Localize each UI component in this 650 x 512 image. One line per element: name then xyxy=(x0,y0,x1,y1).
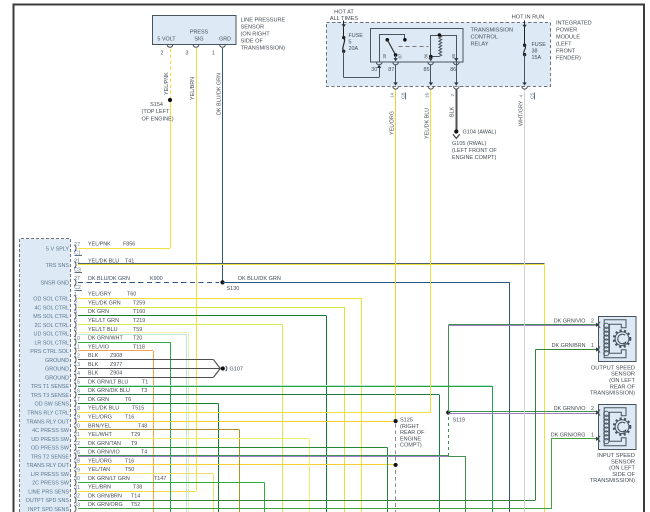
svg-text:DK GRN/WHT: DK GRN/WHT xyxy=(88,336,123,342)
svg-text:T38: T38 xyxy=(133,485,142,491)
svg-text:T1: T1 xyxy=(142,379,148,385)
svg-text:T29: T29 xyxy=(131,432,140,438)
svg-text:T50: T50 xyxy=(125,467,134,473)
svg-text:86: 86 xyxy=(423,53,428,58)
svg-text:33: 33 xyxy=(74,502,80,508)
svg-text:ALL TIMES: ALL TIMES xyxy=(330,16,359,22)
relay coil between pins 85 and 86 xyxy=(430,35,432,57)
wire DK GRN/WHT T20 LR solenoid: TCM pin10 right, down off-page xyxy=(78,342,170,344)
svg-text:DK BLU/DK GRN: DK BLU/DK GRN xyxy=(217,73,223,115)
svg-text:(ON RIGHT: (ON RIGHT xyxy=(241,32,271,38)
wire YEL/DK BLU 16: relay pin 85 exit at IPM edge xyxy=(429,82,433,85)
svg-text:FUSE: FUSE xyxy=(349,33,364,39)
svg-text:TRANSMISSION): TRANSMISSION) xyxy=(590,478,635,484)
svg-text:RELAY: RELAY xyxy=(471,42,489,48)
relay pin 86 riser xyxy=(456,35,458,62)
svg-text:T48: T48 xyxy=(138,423,147,429)
svg-text:DK GRN/ORG: DK GRN/ORG xyxy=(88,502,123,508)
speed sensor connector bumps and arrows xyxy=(599,322,601,328)
svg-text:(RIGHT: (RIGHT xyxy=(400,424,420,430)
wire YEL/ORG 14 C8: relay pin 87 exit at IPM edge xyxy=(393,82,397,85)
svg-text:8: 8 xyxy=(74,327,77,333)
svg-text:28: 28 xyxy=(74,459,80,465)
svg-text:GROUND: GROUND xyxy=(45,367,69,373)
svg-text:1: 1 xyxy=(591,432,594,438)
svg-text:UD SOL CTRL: UD SOL CTRL xyxy=(34,332,69,338)
svg-text:YEL/TAN: YEL/TAN xyxy=(88,467,110,473)
wire DK GRN/DK BLU T3 TRS T3 sense: TCM pin16 right, down off-page xyxy=(78,394,439,396)
svg-text:30: 30 xyxy=(371,67,377,73)
svg-text:FUSE: FUSE xyxy=(532,42,547,48)
svg-text:14: 14 xyxy=(74,371,80,377)
node S130 splice xyxy=(220,280,224,284)
svg-text:2C SOL CTRL: 2C SOL CTRL xyxy=(34,323,69,329)
relay internals: pin 30 riser and fixed contact xyxy=(379,35,381,62)
svg-text:OUTPT SPD SNS: OUTPT SPD SNS xyxy=(26,498,70,504)
wire YEL/DK BLU T41 TRS sense: TCM pin21 C3 right and down off-page xyxy=(78,263,545,265)
svg-text:5 V SPLY: 5 V SPLY xyxy=(46,246,69,252)
svg-text:26: 26 xyxy=(74,450,80,456)
wire DK GRN/ORG T52 input speed sensor: TCM pin33 right, up to sensor pin 1 xyxy=(78,508,551,510)
output speed sensor icon xyxy=(604,320,631,358)
svg-text:INTEGRATED: INTEGRATED xyxy=(556,21,592,27)
svg-text:YEL/VIO: YEL/VIO xyxy=(88,344,109,350)
svg-text:T59: T59 xyxy=(133,327,142,333)
svg-text:YEL/DK BLU: YEL/DK BLU xyxy=(425,108,431,139)
wire YEL/PNK F856 5V supply: TCM pin27 C1 to S154 to line pressure sensor pin 2 xyxy=(78,248,170,250)
svg-text:TRS T3 SENSE: TRS T3 SENSE xyxy=(31,393,70,399)
svg-text:20: 20 xyxy=(74,423,80,429)
svg-text:UD PRESS SW: UD PRESS SW xyxy=(31,437,70,443)
svg-text:T3: T3 xyxy=(141,388,147,394)
relay linkage dashed line xyxy=(399,46,429,48)
svg-text:G104 (AWAL): G104 (AWAL) xyxy=(463,130,497,136)
svg-text:YEL/DK BLU: YEL/DK BLU xyxy=(88,258,119,264)
node S119 splice xyxy=(446,410,450,414)
svg-text:86: 86 xyxy=(450,67,456,73)
svg-text:87: 87 xyxy=(388,67,394,73)
IPM bottom edge connector bumps xyxy=(393,86,399,89)
svg-text:4: 4 xyxy=(519,95,525,98)
svg-text:BLK: BLK xyxy=(88,371,99,377)
svg-text:18: 18 xyxy=(74,406,80,412)
wire YEL/DK BLU T515 relay control: TCM pin18 right and up to relay pin 85 xyxy=(78,412,431,414)
svg-text:S154: S154 xyxy=(150,102,163,108)
svg-text:TRANSMISSION): TRANSMISSION) xyxy=(241,46,286,52)
svg-text:POWER: POWER xyxy=(556,28,577,34)
svg-text:2: 2 xyxy=(74,301,77,307)
svg-text:21: 21 xyxy=(74,259,80,265)
svg-text:T6: T6 xyxy=(125,397,131,403)
wire YEL/ORG T16 TCM pin28 joins splice below S125 xyxy=(78,464,396,466)
wire YEL/ORG T16 relay output: relay pin 87 down to S125 xyxy=(395,65,397,84)
svg-text:T52: T52 xyxy=(131,502,140,508)
svg-text:BLK: BLK xyxy=(88,362,99,368)
svg-text:YEL/ORG: YEL/ORG xyxy=(390,111,396,135)
svg-text:FENDER): FENDER) xyxy=(556,56,581,62)
wire DK GRN/VIO S119 right to input speed sensor pin 2 xyxy=(448,411,596,413)
svg-text:29: 29 xyxy=(74,467,80,473)
wire YEL/BRN T38 press sig: line pressure sensor pin 3 down to TCM row 31 xyxy=(196,48,198,491)
svg-text:DK GRN/LT BLU: DK GRN/LT BLU xyxy=(88,379,128,385)
wire WHT/GRY: fuse 38 down through IPM connector pin4 C5 off-page xyxy=(524,55,526,84)
svg-text:2: 2 xyxy=(591,406,594,412)
wire BLK Z904 ground: TCM pin14 to G107 arrow xyxy=(78,377,214,379)
wire DK BLU/DK GRN from S130 right and down off-page xyxy=(223,282,510,284)
wire YEL/GRY T60 OD solenoid: TCM pin1 right, down off-page xyxy=(78,298,362,300)
svg-text:2C PRESS SW: 2C PRESS SW xyxy=(32,481,70,487)
svg-text:F856: F856 xyxy=(123,242,135,248)
svg-text:T147: T147 xyxy=(154,476,166,482)
svg-text:3: 3 xyxy=(186,51,189,57)
svg-text:T41: T41 xyxy=(125,258,134,264)
svg-text:SIDE OF: SIDE OF xyxy=(241,39,264,45)
svg-text:YEL/ORG: YEL/ORG xyxy=(88,414,112,420)
svg-text:Z908: Z908 xyxy=(110,353,122,359)
svg-text:MODULE: MODULE xyxy=(556,35,580,41)
relay switch arm xyxy=(386,38,390,42)
svg-text:DK GRN/LT GRN: DK GRN/LT GRN xyxy=(88,476,130,482)
wire YEL/LT BLU T59 UD solenoid: TCM pin8 right, down off-page xyxy=(78,332,188,334)
fuse 5 20A xyxy=(342,36,345,39)
wire YEL/LT GRN T219 2C solenoid: TCM pin6 right, down off-page xyxy=(78,324,283,326)
svg-text:T160: T160 xyxy=(133,309,145,315)
svg-text:PRS CTRL SOL: PRS CTRL SOL xyxy=(30,349,69,355)
svg-text:YEL/PNK: YEL/PNK xyxy=(164,72,170,95)
svg-text:DK GRN/TAN: DK GRN/TAN xyxy=(88,441,121,447)
TCM module box (transmission control module, left) xyxy=(19,239,70,512)
svg-text:LINE PRS SENS: LINE PRS SENS xyxy=(28,489,69,495)
svg-text:SNSR GND: SNSR GND xyxy=(41,281,70,287)
wire BLK Z908 ground: TCM pin12 to G107 arrow xyxy=(78,359,214,361)
wire DK GRN/BRN T14 output speed sensor: TCM pin32 right, up to sensor pin 1 xyxy=(78,500,536,502)
svg-text:G105 (RWAL): G105 (RWAL) xyxy=(452,141,486,147)
svg-text:15A: 15A xyxy=(532,55,542,61)
svg-text:32: 32 xyxy=(74,494,80,500)
wire DK GRN T6 OD switch sense: TCM pin17 right, down off-page xyxy=(78,403,219,405)
svg-text:BLK: BLK xyxy=(450,106,456,117)
svg-text:21: 21 xyxy=(74,432,80,438)
wire dashed continuation below S125 off-page xyxy=(395,424,397,512)
svg-text:31: 31 xyxy=(74,485,80,491)
svg-text:REAR OF: REAR OF xyxy=(610,384,636,390)
ground G104 (AWAL) xyxy=(454,129,458,133)
svg-text:TRANSMISSION): TRANSMISSION) xyxy=(590,391,635,397)
svg-text:DK GRN/BRN: DK GRN/BRN xyxy=(552,343,586,349)
svg-text:20A: 20A xyxy=(349,46,359,52)
output speed sensor box xyxy=(599,317,637,362)
transmission control relay box xyxy=(371,29,464,63)
svg-text:T16: T16 xyxy=(125,414,134,420)
wire DK GRN T160 MS solenoid: TCM pin4 right, down off-page xyxy=(78,315,326,317)
svg-text:WHT/GRY: WHT/GRY xyxy=(519,100,525,126)
svg-text:S125: S125 xyxy=(400,418,413,424)
input speed sensor box xyxy=(599,405,637,450)
svg-text:T16: T16 xyxy=(125,458,134,464)
svg-text:16: 16 xyxy=(425,92,431,98)
svg-text:BLK: BLK xyxy=(88,353,99,359)
svg-text:C2: C2 xyxy=(74,285,81,291)
svg-text:1: 1 xyxy=(591,343,594,349)
svg-text:MS SOL CTRL: MS SOL CTRL xyxy=(33,314,69,320)
svg-text:YEL/ORG: YEL/ORG xyxy=(88,458,112,464)
svg-text:INPUT SPEED: INPUT SPEED xyxy=(597,453,635,459)
svg-text:DK BLU/DK GRN: DK BLU/DK GRN xyxy=(88,276,130,282)
svg-text:2: 2 xyxy=(161,51,164,57)
svg-text:INPT SPD SENS: INPT SPD SENS xyxy=(28,507,69,512)
wire BLK 2: relay pin 86 down to ground G104/G105 xyxy=(456,62,458,84)
svg-text:DK BLU/DK GRN: DK BLU/DK GRN xyxy=(238,276,281,282)
svg-text:2: 2 xyxy=(450,94,456,97)
svg-text:16: 16 xyxy=(74,388,80,394)
svg-text:15: 15 xyxy=(74,380,80,386)
svg-text:30: 30 xyxy=(74,476,80,482)
svg-text:(ON LEFT: (ON LEFT xyxy=(609,378,635,384)
svg-text:OF ENGINE): OF ENGINE) xyxy=(142,117,174,123)
svg-text:HOT IN RUN: HOT IN RUN xyxy=(512,15,545,21)
svg-text:SIDE OF: SIDE OF xyxy=(612,472,635,478)
svg-text:5 VOLT: 5 VOLT xyxy=(157,37,176,43)
svg-text:S119: S119 xyxy=(453,418,465,424)
node splice on S125 branch xyxy=(394,463,398,467)
wire DK BLU/DK GRN ground: line pressure sensor pin 1 down to S130 xyxy=(222,48,224,282)
wire HOT IN RUN down to fuse 38 xyxy=(524,21,526,45)
svg-text:GRD: GRD xyxy=(219,37,231,43)
wire BRN/YEL T48 4C pressure switch: TCM pin20 right, down off-page xyxy=(78,429,240,431)
svg-text:OUTPUT SPEED: OUTPUT SPEED xyxy=(591,365,635,371)
svg-text:SIG: SIG xyxy=(194,37,203,43)
wire DK GRN/VIO continuation jog right then down off-page xyxy=(448,456,465,458)
svg-text:17: 17 xyxy=(74,397,80,403)
svg-text:13: 13 xyxy=(74,362,80,368)
svg-text:LR SOL CTRL: LR SOL CTRL xyxy=(34,340,69,346)
svg-text:REAR OF: REAR OF xyxy=(400,430,425,436)
svg-text:22: 22 xyxy=(74,441,80,447)
svg-text:HOT AT: HOT AT xyxy=(334,10,354,16)
svg-text:DK GRN/VIO: DK GRN/VIO xyxy=(88,450,120,456)
svg-text:14: 14 xyxy=(390,92,396,98)
svg-text:CONTROL: CONTROL xyxy=(471,35,498,41)
svg-text:TRNS RLY CTRL: TRNS RLY CTRL xyxy=(27,411,69,417)
svg-text:T118: T118 xyxy=(133,344,145,350)
wire DK GRN/TAN T9 OD pressure switch: TCM pin22 right, down off-page xyxy=(78,447,388,449)
svg-text:DK GRN: DK GRN xyxy=(88,309,109,315)
svg-text:FRONT: FRONT xyxy=(556,49,576,55)
svg-text:S130: S130 xyxy=(227,286,240,292)
svg-text:4C SOL CTRL: 4C SOL CTRL xyxy=(34,305,69,311)
svg-text:L/R PRESS SW: L/R PRESS SW xyxy=(31,472,70,478)
svg-text:T9: T9 xyxy=(131,441,137,447)
svg-text:Z904: Z904 xyxy=(110,371,122,377)
wire BLK Z977 ground: TCM pin13 to G107 xyxy=(78,368,220,370)
svg-text:(LEFT FRONT OF: (LEFT FRONT OF xyxy=(452,148,497,154)
svg-text:DK GRN: DK GRN xyxy=(88,397,109,403)
svg-text:OD SOL CTRL: OD SOL CTRL xyxy=(33,297,69,303)
integrated power module box (IPM) xyxy=(327,22,551,86)
svg-text:T14: T14 xyxy=(131,493,140,499)
svg-text:T60: T60 xyxy=(127,292,136,298)
svg-text:SENSOR: SENSOR xyxy=(611,372,635,378)
svg-text:T219: T219 xyxy=(133,318,145,324)
svg-text:(ON LEFT: (ON LEFT xyxy=(609,466,635,472)
svg-text:ENGINE COMPT): ENGINE COMPT) xyxy=(452,155,496,161)
svg-text:GROUND: GROUND xyxy=(45,358,69,364)
wire YEL/VIO T118 pressure control solenoid: TCM pin11 right, down off-page xyxy=(78,350,153,352)
input speed sensor icon xyxy=(604,408,631,446)
wire DK GRN/LT GRN T147 2C pressure switch: TCM pin30 right, down off-page xyxy=(78,482,265,484)
wire YEL/ORG T16 TCM pin19 to S125 xyxy=(78,421,396,423)
ground G107 xyxy=(221,366,225,370)
svg-text:DK GRN/VIO: DK GRN/VIO xyxy=(554,406,586,412)
svg-text:(TOP LEFT: (TOP LEFT xyxy=(142,109,171,115)
svg-text:85: 85 xyxy=(451,53,456,58)
wire fuse 5 to relay pin 30 xyxy=(343,51,345,77)
svg-text:TRANS RLY OUT: TRANS RLY OUT xyxy=(26,419,69,425)
wire from HOT AT ALL TIMES down to fuse 5 xyxy=(343,21,345,37)
svg-text:YEL/DK BLU: YEL/DK BLU xyxy=(88,406,119,412)
svg-text:10: 10 xyxy=(74,336,80,342)
svg-text:30: 30 xyxy=(382,53,387,58)
svg-text:TRS SNS: TRS SNS xyxy=(46,263,70,269)
wire DK GRN/VIO T4 TRS T2 sense: TCM pin26 right to junction below S119 xyxy=(78,455,448,457)
svg-text:19: 19 xyxy=(74,415,80,421)
svg-text:DK GRN/DK BLU: DK GRN/DK BLU xyxy=(88,388,130,394)
svg-text:38: 38 xyxy=(532,49,538,55)
svg-text:YEL/WHT: YEL/WHT xyxy=(88,432,113,438)
svg-text:OD SW SENS: OD SW SENS xyxy=(35,402,70,408)
wire YEL/WHT T29 UD pressure switch: TCM pin21 right, down off-page xyxy=(78,438,309,440)
svg-text:12: 12 xyxy=(74,353,80,359)
wire DK GRN/LT BLU T1 TRS T1 sense: TCM pin15 right, down off-page xyxy=(78,385,492,387)
TCM pin connector brackets xyxy=(74,245,76,252)
svg-text:YEL/DK GRN: YEL/DK GRN xyxy=(88,300,121,306)
svg-text:6: 6 xyxy=(74,318,77,324)
svg-text:YEL/PNK: YEL/PNK xyxy=(88,242,111,248)
wire YEL/DK GRN T259 4C solenoid: TCM pin2 right, down off-page xyxy=(78,307,344,309)
svg-text:27: 27 xyxy=(74,242,80,248)
relay pin bumps on relay box bottom edge xyxy=(376,62,382,65)
svg-text:YEL/BRN: YEL/BRN xyxy=(88,485,111,491)
svg-text:DK GRN/ORG: DK GRN/ORG xyxy=(551,432,586,438)
svg-text:COMPT): COMPT) xyxy=(400,443,422,449)
svg-text:G107: G107 xyxy=(230,366,243,372)
svg-text:DK GRN/BRN: DK GRN/BRN xyxy=(88,493,122,499)
svg-text:1: 1 xyxy=(74,292,77,298)
svg-text:(LEFT: (LEFT xyxy=(556,42,572,48)
svg-text:DK GRN/VIO: DK GRN/VIO xyxy=(554,318,586,324)
svg-text:GROUND: GROUND xyxy=(45,375,69,381)
svg-text:ENGINE: ENGINE xyxy=(400,436,421,442)
svg-text:PRESS: PRESS xyxy=(190,30,209,36)
wire DK GRN/VIO riser from junction up to S119 (dashed continuation) xyxy=(448,415,450,456)
svg-text:27: 27 xyxy=(74,276,80,282)
svg-text:SENSOR: SENSOR xyxy=(611,459,635,465)
svg-text:85: 85 xyxy=(424,67,430,73)
svg-text:T20: T20 xyxy=(133,336,142,342)
svg-text:11: 11 xyxy=(74,345,79,351)
wire DK GRN/VIO S119 up and right to output speed sensor pin 2 xyxy=(448,325,450,413)
svg-text:T515: T515 xyxy=(132,406,144,412)
svg-text:K900: K900 xyxy=(150,276,163,282)
node S154 splice xyxy=(168,98,172,102)
svg-text:87: 87 xyxy=(398,53,403,58)
svg-text:T4: T4 xyxy=(141,450,147,456)
svg-text:YEL/GRY: YEL/GRY xyxy=(88,292,112,298)
svg-text:BRN/YEL: BRN/YEL xyxy=(88,423,111,429)
svg-text:Z977: Z977 xyxy=(110,362,122,368)
svg-text:YEL/LT GRN: YEL/LT GRN xyxy=(88,318,119,324)
line pressure sensor box xyxy=(153,16,237,45)
relay pin 85 riser xyxy=(430,57,432,61)
fuse 38 15A xyxy=(523,44,526,47)
svg-text:5: 5 xyxy=(349,40,352,46)
svg-text:TRS T1 SENSE: TRS T1 SENSE xyxy=(31,384,70,390)
svg-text:2: 2 xyxy=(591,318,594,324)
svg-text:YEL/BRN: YEL/BRN xyxy=(190,77,196,100)
svg-text:1: 1 xyxy=(212,51,215,57)
svg-text:LINE PRESSURE: LINE PRESSURE xyxy=(241,18,286,24)
node S125 splice xyxy=(394,419,398,423)
wire DK BLU/DK GRN K900 sensor ground: TCM pin27 C2 dashed to S130 xyxy=(78,282,219,284)
svg-text:OD PRESS SW: OD PRESS SW xyxy=(31,446,70,452)
wire YEL/TAN T50 L/R pressure switch: TCM pin29 right, down off-page xyxy=(78,473,213,475)
svg-text:4: 4 xyxy=(74,309,77,315)
svg-text:T259: T259 xyxy=(133,300,145,306)
svg-text:TRANSMISSION: TRANSMISSION xyxy=(471,28,514,34)
svg-text:4C PRESS SW: 4C PRESS SW xyxy=(32,428,70,434)
svg-text:TRS T2 SENSE: TRS T2 SENSE xyxy=(31,454,70,460)
line pressure sensor connector bumps xyxy=(167,45,173,48)
svg-text:TRANS RLY OUT: TRANS RLY OUT xyxy=(26,463,69,469)
svg-text:YEL/LT BLU: YEL/LT BLU xyxy=(88,327,118,333)
svg-text:SENSOR: SENSOR xyxy=(241,25,265,31)
